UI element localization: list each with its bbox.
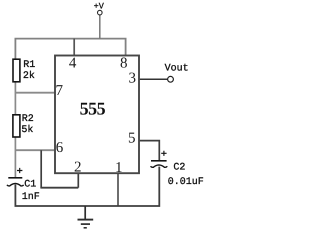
wire pin6-to-pin2 vertical link [40, 150, 42, 188]
node +V terminal circle [98, 10, 103, 15]
svg-text:C1: C1 [24, 180, 36, 191]
wire pin 6 horizontal [15, 149, 55, 151]
capacitor C1 curved plate [7, 184, 24, 186]
wire pin 1 drop from 555 box bottom to ground rail [117, 174, 119, 206]
ground symbol stem [84, 206, 86, 219]
svg-text:5: 5 [128, 131, 136, 147]
svg-text:2: 2 [74, 159, 82, 175]
svg-text:3: 3 [128, 71, 136, 87]
resistor R2 [13, 115, 20, 137]
wire +V stem [99, 15, 101, 39]
svg-text:7: 7 [56, 83, 64, 99]
wire top rail from left rail corner to pin 8 drop [15, 39, 125, 59]
svg-text:1nF: 1nF [22, 192, 40, 203]
wire pin 2 drop from 555 box bottom [77, 174, 79, 188]
capacitor C2 polarity plus sign [161, 151, 166, 156]
wire left rail between R1 and R2 with pin 7 tap [14, 82, 16, 114]
wire pin 7 horizontal [15, 92, 55, 94]
wire pin 2 horizontal [40, 187, 78, 189]
node Vout terminal circle [168, 76, 174, 82]
svg-text:6: 6 [56, 140, 64, 156]
svg-text:0.01uF: 0.01uF [168, 177, 204, 188]
svg-text:R1: R1 [23, 60, 35, 71]
wire left rail between R2 and C1 with pin 6 tap [14, 138, 16, 178]
svg-text:5k: 5k [21, 124, 33, 136]
ground bar 1 [78, 219, 94, 221]
svg-text:8: 8 [120, 56, 128, 72]
ground bar 2 [81, 223, 90, 225]
svg-text:Vout: Vout [165, 64, 189, 75]
capacitor C2 curved plate [151, 165, 168, 167]
op-amp U1 555 timer IC box [55, 56, 139, 174]
wire pin 4 drop from top rail to 555 box [73, 39, 75, 56]
svg-text:R2: R2 [22, 114, 34, 125]
ground bar 3 [84, 227, 87, 229]
capacitor C2 top plate [151, 160, 167, 162]
resistor R1 [13, 59, 20, 82]
wire pin 3 output to Vout terminal [140, 78, 168, 80]
svg-text:C2: C2 [173, 162, 185, 173]
capacitor C1 polarity plus sign [17, 168, 22, 173]
svg-text:4: 4 [69, 56, 77, 72]
capacitor C1 top plate [8, 177, 22, 179]
svg-text:1: 1 [115, 160, 123, 176]
svg-text:555: 555 [80, 99, 106, 119]
svg-text:+V: +V [94, 2, 105, 12]
wire pin 5 horizontal and drop to C2 [139, 141, 159, 161]
wire bottom ground rail with C1 stem and C2 stem [15, 167, 159, 206]
svg-text:2k: 2k [23, 70, 35, 82]
